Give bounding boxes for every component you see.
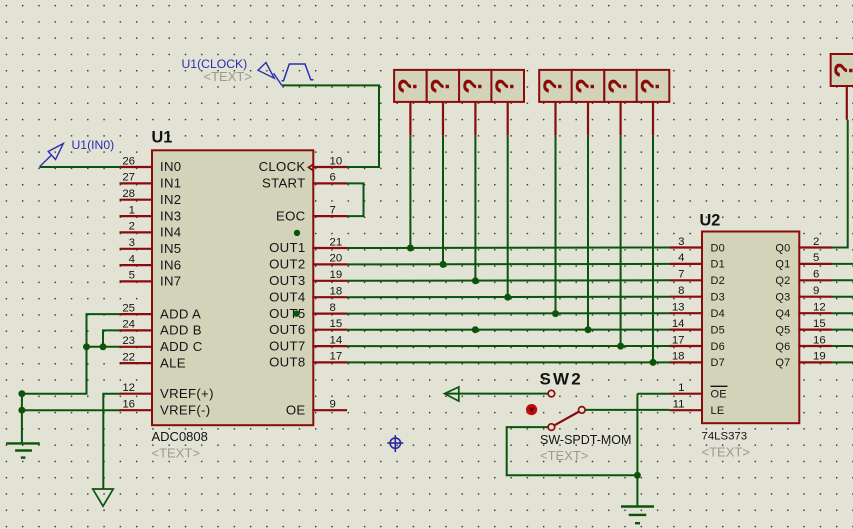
U1 pin ADD C (23) xyxy=(120,335,203,354)
svg-text:6: 6 xyxy=(330,172,336,184)
origin crosshair marker xyxy=(387,435,403,452)
wire U1(IN0) input net xyxy=(40,166,121,168)
svg-text:D6: D6 xyxy=(711,341,725,353)
U1 pin OUT6 (15) xyxy=(269,318,347,337)
wire VREF(-) to ground net xyxy=(22,409,121,411)
clock input wedge on U1 pin 10 xyxy=(309,164,314,170)
svg-text:EOC: EOC xyxy=(276,208,306,223)
wire Q1 to right edge xyxy=(832,263,853,265)
svg-text:12: 12 xyxy=(122,382,135,394)
logic probe 7 pin xyxy=(619,102,621,135)
input terminal arrow (SW2) xyxy=(444,387,458,401)
svg-text:12: 12 xyxy=(813,302,826,314)
svg-text:U1: U1 xyxy=(152,129,173,147)
svg-text:IN1: IN1 xyxy=(160,176,181,191)
svg-text:OUT2: OUT2 xyxy=(269,257,305,272)
svg-text:19: 19 xyxy=(330,269,343,281)
svg-text:23: 23 xyxy=(122,335,135,347)
svg-text:ADC0808: ADC0808 xyxy=(152,429,208,444)
junction dot 14 xyxy=(634,472,641,479)
wire Q6 to right edge xyxy=(832,345,853,347)
junction dot 6 xyxy=(585,326,592,333)
logic probe 3 body xyxy=(459,70,492,102)
svg-text:SW2: SW2 xyxy=(540,370,583,389)
wire U1(CLOCK) net from clock generator to pin 10 xyxy=(282,85,379,167)
svg-text:<TEXT>: <TEXT> xyxy=(152,446,200,461)
svg-text:Q4: Q4 xyxy=(775,308,790,320)
svg-text:10: 10 xyxy=(330,155,343,167)
switch SW2 upper throw contact xyxy=(548,390,555,397)
wire logic probe 4 drop xyxy=(507,135,509,297)
U1 pin VREF(+) (12) xyxy=(120,382,214,401)
U2 pin D4 (13) xyxy=(670,302,725,321)
svg-text:Q2: Q2 xyxy=(775,275,790,287)
svg-text:START: START xyxy=(262,176,306,191)
svg-text:CLOCK: CLOCK xyxy=(259,159,306,174)
wire OUT3 to D2 bus line xyxy=(347,279,670,282)
U2 pin Q0 (2) xyxy=(775,236,831,255)
U2 pin Q1 (5) xyxy=(775,252,831,271)
logic probe 1 body xyxy=(394,70,427,102)
svg-text:17: 17 xyxy=(330,351,343,363)
logic probe 1 pin xyxy=(409,102,411,135)
svg-text:27: 27 xyxy=(122,172,135,184)
U2 pin D5 (14) xyxy=(670,318,725,337)
U2 pin Q4 (12) xyxy=(775,302,831,321)
svg-text:OUT1: OUT1 xyxy=(269,240,305,255)
output terminal arrow (VREF+) xyxy=(93,489,113,506)
junction dot 12 xyxy=(83,343,90,350)
junction dot 5 xyxy=(552,310,559,317)
switch SW2 actuator button xyxy=(526,404,537,415)
U1 pin OUT8 (17) xyxy=(269,351,347,370)
svg-text:IN0: IN0 xyxy=(160,159,181,174)
svg-text:D4: D4 xyxy=(711,308,725,320)
svg-text:15: 15 xyxy=(813,318,826,330)
svg-text:9: 9 xyxy=(330,399,336,411)
svg-text:8: 8 xyxy=(678,285,684,297)
logic probe 9 pin xyxy=(846,86,848,120)
svg-text:<TEXT>: <TEXT> xyxy=(540,448,588,463)
U1 pin OUT2 (20) xyxy=(269,253,347,272)
svg-text:ADD B: ADD B xyxy=(160,323,202,338)
wire logic probe 5 drop xyxy=(555,135,557,313)
wire logic probe 1 drop xyxy=(409,135,411,248)
U1 pin OE (9) xyxy=(286,399,347,418)
svg-text:<TEXT>: <TEXT> xyxy=(204,69,252,84)
generator U1(CLOCK) arrow xyxy=(258,63,282,86)
U1 pin IN5 (3) xyxy=(120,237,182,256)
U2 pin D1 (4) xyxy=(670,252,725,271)
U2 pin Q3 (9) xyxy=(775,285,831,304)
state dot near OUT5 xyxy=(293,310,299,316)
U2 pin D2 (7) xyxy=(670,269,725,288)
svg-text:17: 17 xyxy=(672,334,685,346)
junction dot 8 xyxy=(650,359,657,366)
svg-text:LE: LE xyxy=(711,405,725,417)
svg-text:<TEXT>: <TEXT> xyxy=(702,445,750,460)
U2 pin Q2 (6) xyxy=(775,269,831,288)
svg-text:D3: D3 xyxy=(711,292,725,304)
U2 pin D3 (8) xyxy=(670,285,725,304)
svg-text:?: ? xyxy=(572,78,600,94)
U1 pin IN0 (26) xyxy=(120,155,182,174)
svg-text:24: 24 xyxy=(122,319,135,331)
state dot near EOC xyxy=(294,230,300,236)
U2 pin D7 (18) xyxy=(670,351,725,370)
wire logic probe 2 drop xyxy=(442,135,444,264)
wire logic probe 8 drop xyxy=(652,135,654,362)
wire Q2 to right edge xyxy=(832,279,853,281)
svg-text:IN5: IN5 xyxy=(160,241,181,256)
svg-text:?: ? xyxy=(539,78,567,94)
U2 pin LE (11) xyxy=(670,399,725,418)
U1 pin START (6) xyxy=(262,172,347,191)
switch SW2 lever xyxy=(554,412,579,426)
wire ADD A to ground net xyxy=(22,314,121,394)
wire SW2 lower throw to ground junction xyxy=(507,427,638,475)
logic probe 6 pin xyxy=(587,102,589,135)
ground (under switch / OE net) xyxy=(621,507,654,524)
wire OE net vertical to ground xyxy=(636,394,638,507)
svg-text:OUT8: OUT8 xyxy=(269,355,305,370)
wire Q0 to probe 9 xyxy=(832,120,848,248)
U1 pin EOC (7) xyxy=(276,204,347,223)
wire logic probe 7 drop xyxy=(620,135,622,346)
U1 pin IN2 (28) xyxy=(120,188,182,207)
svg-text:OUT5: OUT5 xyxy=(269,306,305,321)
wire OE(1) horizontal xyxy=(637,393,669,395)
logic probe 8 body xyxy=(637,70,670,102)
svg-text:Q5: Q5 xyxy=(775,324,790,336)
svg-text:IN7: IN7 xyxy=(160,274,181,289)
svg-text:2: 2 xyxy=(813,236,819,248)
logic probe 4 pin xyxy=(507,102,509,135)
junction dot 3 xyxy=(472,277,479,284)
svg-text:OUT3: OUT3 xyxy=(269,273,305,288)
svg-text:74LS373: 74LS373 xyxy=(702,431,748,443)
svg-text:IN4: IN4 xyxy=(160,225,181,240)
svg-text:6: 6 xyxy=(813,269,819,281)
junction dot 9 xyxy=(472,326,479,333)
svg-text:ADD C: ADD C xyxy=(160,339,203,354)
U1 pin IN1 (27) xyxy=(120,172,182,191)
logic probe 4 body xyxy=(491,70,524,102)
junction dot 7 xyxy=(617,343,624,350)
U1 pin VREF(-) (16) xyxy=(120,399,211,418)
svg-text:Q0: Q0 xyxy=(775,242,790,254)
wire OUT4 to D3 bus line xyxy=(347,296,670,299)
svg-text:?: ? xyxy=(605,78,633,94)
U2 pin D6 (17) xyxy=(670,334,725,353)
wire OUT2 to D1 bus line xyxy=(347,263,670,266)
wire ground drop left xyxy=(21,394,23,443)
svg-text:14: 14 xyxy=(672,318,685,330)
U1 pin ALE (22) xyxy=(120,351,186,370)
svg-text:OE: OE xyxy=(286,402,306,417)
logic probe 3 pin xyxy=(474,102,476,135)
U1 pin IN4 (2) xyxy=(120,221,182,240)
svg-text:?: ? xyxy=(427,78,455,94)
svg-text:18: 18 xyxy=(330,286,343,298)
generator U1(CLOCK) pulse waveform xyxy=(282,64,314,81)
svg-text:16: 16 xyxy=(813,334,826,346)
IC U1 ADC0808 body xyxy=(152,150,313,425)
svg-text:U2: U2 xyxy=(700,212,721,230)
svg-text:20: 20 xyxy=(330,253,343,265)
probe arrow U1(IN0) xyxy=(40,144,64,167)
wire Q3 to right edge xyxy=(832,296,853,298)
U2 pin OE (1) xyxy=(670,382,727,401)
wire OUT1 to D0 bus line xyxy=(347,247,670,250)
wire OUT5 to D4 bus line xyxy=(347,312,670,314)
svg-text:4: 4 xyxy=(678,252,684,264)
svg-text:D7: D7 xyxy=(711,357,725,369)
junction dot 2 xyxy=(440,261,447,268)
switch SW2 pole contact xyxy=(579,407,586,414)
svg-text:7: 7 xyxy=(678,269,684,281)
svg-text:3: 3 xyxy=(678,236,684,248)
logic probe 5 pin xyxy=(554,102,556,135)
U1 pin ADD B (24) xyxy=(120,319,202,338)
svg-text:IN2: IN2 xyxy=(160,192,181,207)
U1 pin OUT7 (14) xyxy=(269,334,347,353)
svg-text:2: 2 xyxy=(129,221,135,233)
wire START(6) to EOC(7) loop xyxy=(347,183,364,216)
logic probe 2 pin xyxy=(442,102,444,135)
wire OUT6 to D5 bus line xyxy=(347,329,670,331)
svg-text:VREF(-): VREF(-) xyxy=(160,402,210,417)
U1 pin ADD A (25) xyxy=(120,302,202,321)
svg-text:SW-SPDT-MOM: SW-SPDT-MOM xyxy=(540,433,631,447)
overline on U2 OE xyxy=(711,385,728,387)
U1 pin IN6 (4) xyxy=(120,253,182,272)
logic probe 6 body xyxy=(572,70,605,102)
logic probe 7 body xyxy=(604,70,637,102)
svg-text:OE: OE xyxy=(711,389,727,401)
svg-text:13: 13 xyxy=(672,302,685,314)
svg-text:25: 25 xyxy=(122,302,135,314)
svg-text:18: 18 xyxy=(672,351,685,363)
svg-text:1: 1 xyxy=(129,204,135,216)
svg-text:VREF(+): VREF(+) xyxy=(160,386,214,401)
svg-text:?: ? xyxy=(459,78,487,94)
junction dot 4 xyxy=(504,294,511,301)
switch SW2 lower throw contact xyxy=(548,424,555,431)
U2 pin Q7 (19) xyxy=(775,351,831,370)
svg-text:OUT7: OUT7 xyxy=(269,338,305,353)
svg-text:5: 5 xyxy=(813,252,819,264)
U1 pin OUT1 (21) xyxy=(269,236,347,255)
logic probe 5 body xyxy=(539,70,572,102)
svg-text:5: 5 xyxy=(129,270,135,282)
svg-text:8: 8 xyxy=(330,302,336,314)
U1 pin OUT3 (19) xyxy=(269,269,347,288)
svg-text:21: 21 xyxy=(330,236,343,248)
ground (left, VREF net) xyxy=(6,443,40,457)
wire OUT7 to D6 bus line xyxy=(347,345,670,347)
svg-text:U1(IN0): U1(IN0) xyxy=(72,138,115,152)
svg-text:Q3: Q3 xyxy=(775,292,790,304)
svg-text:OUT6: OUT6 xyxy=(269,322,305,337)
IC U2 74LS373 body xyxy=(702,232,799,424)
svg-text:9: 9 xyxy=(813,285,819,297)
svg-text:D2: D2 xyxy=(711,275,725,287)
wire SW2 input xyxy=(444,393,548,395)
svg-text:Q1: Q1 xyxy=(775,259,790,271)
logic probe 2 body xyxy=(427,70,460,102)
svg-text:Q7: Q7 xyxy=(775,357,790,369)
svg-text:19: 19 xyxy=(813,351,826,363)
wire ADD B down to ADD C xyxy=(103,330,121,346)
svg-text:D0: D0 xyxy=(711,242,725,254)
U2 pin Q5 (15) xyxy=(775,318,831,337)
wire Q5 to right edge xyxy=(832,329,853,331)
wire Q4 to right edge xyxy=(832,312,853,314)
U1 pin IN7 (5) xyxy=(120,270,182,289)
svg-text:1: 1 xyxy=(678,382,684,394)
U2 pin D0 (3) xyxy=(670,236,725,255)
svg-text:?: ? xyxy=(831,62,853,78)
wire Q7 to right edge xyxy=(832,361,853,363)
svg-text:ADD A: ADD A xyxy=(160,306,201,321)
wire VREF(+) down to terminal xyxy=(103,394,120,489)
junction dot 11 xyxy=(18,407,25,414)
svg-text:?: ? xyxy=(492,78,520,94)
svg-text:26: 26 xyxy=(122,155,135,167)
junction dot 1 xyxy=(407,245,414,252)
wire logic probe 3 drop xyxy=(474,135,476,280)
svg-text:3: 3 xyxy=(129,237,135,249)
svg-text:22: 22 xyxy=(122,351,135,363)
wire OUT8 to D7 bus line xyxy=(347,361,670,363)
svg-text:Q6: Q6 xyxy=(775,341,790,353)
svg-text:?: ? xyxy=(637,78,665,94)
svg-text:14: 14 xyxy=(330,334,343,346)
U1 pin CLOCK (10) xyxy=(259,155,347,174)
U1 pin IN3 (1) xyxy=(120,204,182,223)
wire SW2 pole to LE(11) xyxy=(585,409,670,411)
junction dot 10 xyxy=(18,390,25,397)
U2 pin Q6 (16) xyxy=(775,334,831,353)
wire logic probe 6 drop xyxy=(587,135,589,329)
U1 pin OUT4 (18) xyxy=(269,286,347,305)
logic probe 9 body xyxy=(831,54,853,86)
svg-text:ALE: ALE xyxy=(160,355,186,370)
svg-text:IN6: IN6 xyxy=(160,257,181,272)
svg-text:7: 7 xyxy=(330,204,336,216)
wire ADD C xyxy=(87,346,121,348)
svg-text:D1: D1 xyxy=(711,259,725,271)
svg-text:16: 16 xyxy=(122,399,135,411)
svg-text:28: 28 xyxy=(122,188,135,200)
U1 pin OUT5 (8) xyxy=(269,302,347,321)
svg-text:4: 4 xyxy=(129,253,135,265)
svg-text:D5: D5 xyxy=(711,324,725,336)
svg-text:?: ? xyxy=(394,78,422,94)
svg-text:15: 15 xyxy=(330,318,343,330)
logic probe 8 pin xyxy=(652,102,654,135)
junction dot 13 xyxy=(100,343,107,350)
svg-text:IN3: IN3 xyxy=(160,208,181,223)
svg-text:11: 11 xyxy=(673,399,685,411)
svg-text:OUT4: OUT4 xyxy=(269,289,305,304)
